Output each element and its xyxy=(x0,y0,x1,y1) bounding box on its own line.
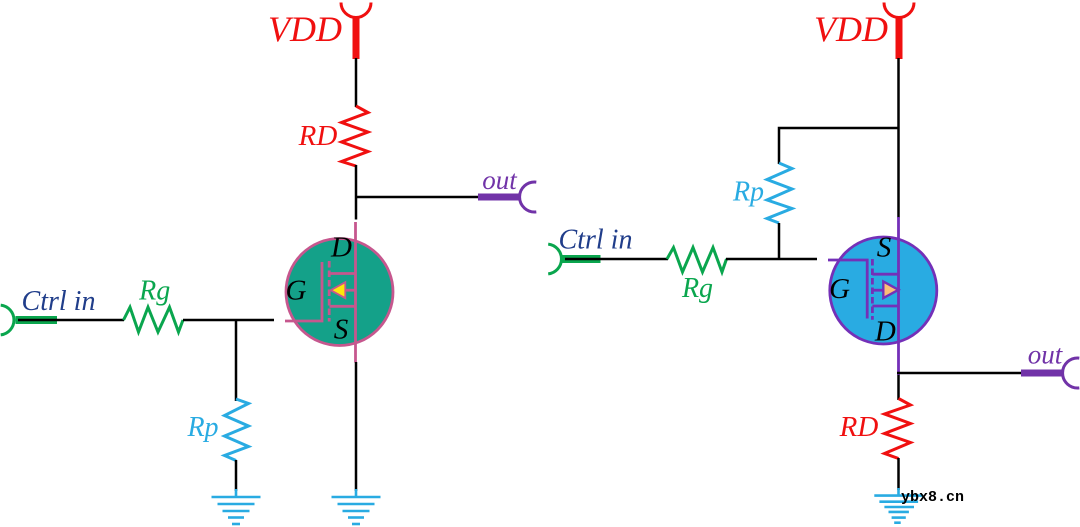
svg-text:G: G xyxy=(829,273,850,305)
svg-text:D: D xyxy=(330,232,352,264)
wire gate junction down to Rp (left) xyxy=(235,320,238,401)
svg-text:Rg: Rg xyxy=(138,275,170,306)
resistor Rg (right) xyxy=(667,248,727,273)
wire Rg to Q1 gate (left) xyxy=(183,319,274,322)
svg-text:out: out xyxy=(482,165,518,195)
svg-text:G: G xyxy=(286,275,307,307)
svg-text:S: S xyxy=(334,314,349,346)
MOSFET Q2 body circle xyxy=(830,237,937,344)
Q2 body arrow (peach, points right) xyxy=(883,282,898,299)
svg-text:out: out xyxy=(1028,340,1064,370)
svg-text:Ctrl in: Ctrl in xyxy=(559,225,633,256)
wire RD to drain node (left) xyxy=(355,165,358,220)
resistor RD (right) xyxy=(885,399,911,459)
svg-text:VDD: VDD xyxy=(814,9,888,49)
wire VDD to Q2 source lead (right) xyxy=(897,58,900,218)
Q1 body stub xyxy=(344,289,356,292)
svg-text:RD: RD xyxy=(298,120,338,152)
Ctrl in terminal (left) xyxy=(1,305,57,335)
ground (under Q1) xyxy=(332,489,381,524)
out terminal (left) xyxy=(478,182,536,212)
VDD terminal (right) xyxy=(884,3,914,60)
wire Ctrl in to Rg (right) xyxy=(565,258,668,261)
VDD terminal (left) xyxy=(341,3,371,60)
MOSFET Q1 body circle xyxy=(286,239,393,346)
Q2 source stub xyxy=(872,273,898,276)
wire Rp to ground (left) xyxy=(235,460,238,491)
ground (right) xyxy=(874,488,923,523)
svg-text:S: S xyxy=(877,232,892,264)
resistor RD (left) xyxy=(342,106,369,166)
ground (under Rp left) xyxy=(212,489,261,524)
Q2 channel (dashed) xyxy=(871,259,874,320)
svg-text:Rg: Rg xyxy=(681,273,713,304)
svg-text:Rp: Rp xyxy=(732,177,764,208)
Q1 body arrow (yellow, points left) xyxy=(331,282,346,298)
Q2 body stub xyxy=(872,289,884,292)
wire Q2 drain to out junction (right) xyxy=(897,375,900,400)
svg-text:ybx8.cn: ybx8.cn xyxy=(901,489,964,506)
wire drain node to out terminal (left) xyxy=(355,196,479,199)
Q1 channel (dashed) xyxy=(328,261,331,322)
wire out junction to out terminal (right) xyxy=(897,372,1022,375)
svg-text:VDD: VDD xyxy=(268,9,342,49)
svg-text:D: D xyxy=(874,316,896,348)
wire Rp to gate junction (right) xyxy=(778,223,781,260)
svg-text:RD: RD xyxy=(839,411,879,443)
resistor Rp (right) xyxy=(767,163,792,223)
resistor Rg (left) xyxy=(124,307,184,332)
resistor Rp (left) xyxy=(225,399,249,461)
wire VDD to RD (left) xyxy=(355,58,358,107)
wire Ctrl in to Rg (left) xyxy=(18,319,124,322)
Q2 source-drain vertical lead xyxy=(897,217,900,375)
Q1 source stub xyxy=(330,305,356,308)
Q2 gate bar and lead xyxy=(828,260,867,319)
out terminal (right) xyxy=(1021,358,1079,388)
wire Q1 source to ground (left) xyxy=(355,362,358,491)
wire Rg to Q2 gate (right) xyxy=(726,258,817,261)
Ctrl in terminal (right) xyxy=(548,244,600,274)
wire VDD branch to Rp (right) xyxy=(779,128,899,164)
Q1 drain-source vertical lead xyxy=(354,222,357,363)
svg-text:Ctrl in: Ctrl in xyxy=(22,286,96,317)
Q1 gate bar and lead xyxy=(285,262,322,321)
Q2 drain stub xyxy=(872,305,898,308)
Q1 drain stub xyxy=(330,272,356,275)
wire RD to ground (right) xyxy=(897,458,900,490)
svg-text:Rp: Rp xyxy=(186,412,218,443)
